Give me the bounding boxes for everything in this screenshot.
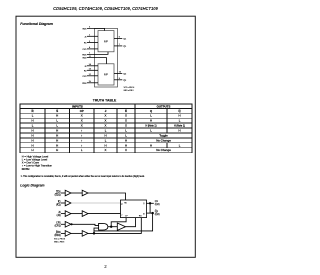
svg-text:X: X <box>105 119 107 123</box>
svg-text:H: H <box>56 133 58 137</box>
inverter U2A K row <box>65 200 71 206</box>
svg-text:X: X <box>81 124 83 128</box>
svg-text:H: H <box>178 114 180 118</box>
svg-text:X: X <box>125 124 127 128</box>
svg-text:H: H <box>150 143 152 147</box>
wire Qbar out <box>147 212 154 214</box>
wire RD branch to AND input <box>94 228 99 233</box>
svg-text:(S̅D2): (S̅D2) <box>55 193 61 196</box>
wire RD2 <box>87 82 98 84</box>
svg-text:Toggle: Toggle <box>159 133 168 137</box>
inverter U5 <box>117 223 125 230</box>
junction Qbar feedback <box>152 212 154 214</box>
svg-text:X: X <box>81 119 83 123</box>
svg-text:VCC = PIN 16: VCC = PIN 16 <box>124 87 135 89</box>
svg-text:H: H <box>31 119 33 123</box>
wire CP label stub <box>61 223 65 225</box>
buffer U3A RD row <box>65 231 71 237</box>
wire J1 <box>87 35 98 37</box>
svg-text:CP: CP <box>80 109 84 113</box>
flip-flop block U6 <box>121 200 147 218</box>
wire RD1 <box>87 52 108 55</box>
svg-text:H: H <box>104 133 106 137</box>
wire SD label stub <box>61 192 65 194</box>
svg-text:R̅D: R̅D <box>139 215 143 218</box>
svg-text:X: X <box>105 114 107 118</box>
wire Q feedback stub <box>149 203 151 213</box>
wire Q out <box>147 202 154 204</box>
AND gate U4 <box>99 223 108 230</box>
wire J2 <box>87 65 98 67</box>
svg-text:H (Note 1): H (Note 1) <box>174 125 185 128</box>
svg-text:(J2): (J2) <box>57 215 61 217</box>
package outline <box>95 28 118 87</box>
svg-text:(Q2): (Q2) <box>155 203 160 206</box>
svg-text:Functional Diagram: Functional Diagram <box>20 22 53 26</box>
wire SD2 <box>87 58 107 64</box>
wire Q1 <box>114 37 122 39</box>
wire K2 <box>87 69 98 71</box>
svg-text:R̅D1: R̅D1 <box>56 231 62 234</box>
svg-text:H: H <box>31 129 33 133</box>
svg-text:J: J <box>121 214 122 216</box>
svg-text:1. This configuration is nonst: 1. This configuration is nonstable; that… <box>21 175 146 178</box>
wire J to block <box>88 213 121 215</box>
svg-text:(R̅D2): (R̅D2) <box>54 234 60 237</box>
buffer U1A SD row <box>65 190 71 196</box>
wire J between buffers <box>71 213 82 215</box>
svg-text:X: X <box>105 148 107 152</box>
truth table grid <box>20 104 192 153</box>
svg-text:X: X <box>125 114 127 118</box>
svg-text:INPUTS: INPUTS <box>72 104 83 108</box>
svg-text:X: X <box>105 124 107 128</box>
truth table data <box>31 114 185 153</box>
svg-text:OUTPUTS: OUTPUTS <box>157 104 171 108</box>
svg-text:GND = PIN 8: GND = PIN 8 <box>54 241 64 243</box>
svg-text:(Q̅2): (Q̅2) <box>155 213 160 216</box>
footnotes <box>21 154 146 177</box>
svg-text:H: H <box>56 143 58 147</box>
svg-text:No Change: No Change <box>156 148 171 152</box>
buffer U1C J row <box>65 211 71 217</box>
svg-text:CD54HC109, CD74HC109, CD54HCT1: CD54HC109, CD74HC109, CD54HCT109, CD74HC… <box>53 6 158 11</box>
svg-text:H: H <box>56 138 58 142</box>
wire CP to AND gate <box>72 224 98 225</box>
flip-flop FF1 <box>98 31 114 52</box>
inverter U2B CP row <box>65 222 71 228</box>
svg-text:NOTE:: NOTE: <box>22 167 30 171</box>
svg-text:H: H <box>125 138 127 142</box>
svg-text:F/F: F/F <box>104 40 108 44</box>
wire inverter out to block <box>126 218 136 227</box>
svg-text:X: X <box>125 119 127 123</box>
svg-text:H: H <box>31 133 33 137</box>
svg-text:CP1: CP1 <box>56 223 61 225</box>
bubble CP inverter <box>71 224 72 225</box>
wire RD label stub <box>61 232 65 234</box>
wire K to block (light) <box>71 202 121 204</box>
wire RD to block bottom <box>88 218 141 234</box>
wire CP2 <box>87 75 98 77</box>
flip-flop FF2 <box>98 64 114 85</box>
junction Q feedback <box>149 203 151 205</box>
svg-text:H: H <box>56 129 58 133</box>
svg-text:H: H <box>31 143 33 147</box>
svg-text:S̅: S̅ <box>56 109 58 113</box>
svg-text:TRUTH TABLE: TRUTH TABLE <box>93 98 117 102</box>
svg-text:H (Note 1): H (Note 1) <box>145 125 156 128</box>
svg-text:X: X <box>125 148 127 152</box>
wire K1 <box>87 42 98 44</box>
logic diagram labels <box>54 190 61 236</box>
buffer U1B SD row <box>82 190 88 196</box>
wire J label stub <box>61 213 65 215</box>
svg-text:VCC = PIN 16: VCC = PIN 16 <box>54 239 65 241</box>
truth table header text <box>31 104 181 113</box>
wire AND branch to block <box>111 218 126 227</box>
svg-text:H: H <box>31 138 33 142</box>
svg-text:H: H <box>104 143 106 147</box>
svg-text:X: X <box>81 114 83 118</box>
wire SD1 <box>87 28 105 30</box>
svg-text:S̅D: S̅D <box>124 202 128 205</box>
wire K label stub <box>61 202 65 204</box>
junction RD to AND <box>93 233 95 235</box>
svg-text:F/F: F/F <box>104 72 108 76</box>
svg-text:(K̅2): (K̅2) <box>56 203 61 206</box>
wire CP1 <box>87 48 98 50</box>
wire Q1bar <box>114 45 122 47</box>
wire Q2bar <box>114 79 122 81</box>
svg-text:H: H <box>56 148 58 152</box>
svg-text:Logic Diagram: Logic Diagram <box>20 184 44 188</box>
svg-text:H: H <box>56 114 58 118</box>
svg-text:No Change: No Change <box>156 138 171 142</box>
svg-text:GND = PIN 8: GND = PIN 8 <box>124 90 134 92</box>
svg-text:H: H <box>125 143 127 147</box>
svg-text:H: H <box>31 148 33 152</box>
junction AND out <box>110 226 112 228</box>
wire SD to block top <box>88 193 126 200</box>
buffer U3B RD row <box>82 231 88 237</box>
wire Q2 <box>114 72 122 74</box>
svg-text:H: H <box>150 119 152 123</box>
wire Qbar feedback to AND branch <box>94 213 153 231</box>
wire AND out <box>108 226 117 228</box>
content border frame <box>16 16 195 257</box>
svg-text:S̅D1: S̅D1 <box>56 190 61 193</box>
svg-text:(CP2): (CP2) <box>55 226 61 228</box>
wire SD between buffers <box>71 192 82 194</box>
wire RD between buffers <box>71 232 82 234</box>
svg-text:H: H <box>178 129 180 133</box>
buffer U1D J row <box>82 211 88 217</box>
